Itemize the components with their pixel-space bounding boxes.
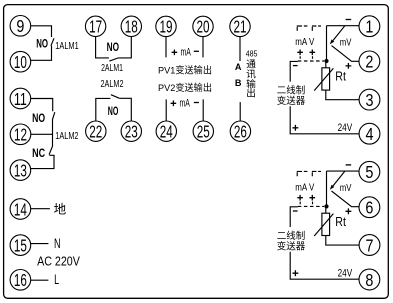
svg-text:16: 16 [14,270,27,290]
relay contact 1ALM2 NC hook to terminal 13 [31,155,54,168]
svg-text:12: 12 [14,125,27,145]
svg-text:4: 4 [366,124,374,144]
RS485 wire to terminal 26 [239,102,241,121]
mV selector arrowhead lower [330,185,335,190]
selector blade to terminal 6 lower [332,191,360,207]
svg-text:二线制: 二线制 [277,84,306,96]
transmitter branch elbow upper [290,61,298,81]
label minus at terminal 1 [346,19,352,21]
dashed drop V lower [312,202,314,207]
ground wire from terminal 14 [31,208,50,210]
svg-text:24: 24 [160,122,173,142]
svg-text:1ALM1: 1ALM1 [55,40,79,52]
dashed drop mA upper [299,56,301,61]
terminal 10 [10,51,31,72]
plus mark mA position upper [297,50,303,56]
terminal 24 [156,121,176,142]
svg-text:地: 地 [54,203,67,217]
svg-text:23: 23 [125,122,138,142]
dashed gate V upper [312,26,321,31]
dashed drop mA lower [299,202,301,207]
svg-text:21: 21 [234,17,247,37]
label + of PV2 output [171,101,177,107]
dashed gate V lower [312,171,321,176]
svg-text:NO: NO [107,40,119,54]
terminal 8 [359,269,380,290]
terminal 25 [193,121,213,142]
svg-text:24V: 24V [338,122,353,134]
dashed selector line lower [298,205,324,207]
svg-text:7: 7 [366,235,374,255]
label minus of transmitter upper [293,65,298,67]
svg-text:13: 13 [14,160,27,180]
svg-text:11: 11 [14,89,27,109]
label + of PV1 output [172,50,178,56]
plus mark mA position lower [297,195,303,201]
wire N from terminal 15 [31,243,49,245]
relay contact 1ALM2 blade [49,112,55,154]
transmitter wire to terminal 4 [290,106,359,134]
terminal 7 [359,235,380,256]
junction node lower [324,204,328,208]
resistor Rt lower wire to terminal 7 [326,236,359,246]
svg-text:mA V: mA V [295,37,314,48]
svg-text:19: 19 [160,17,173,37]
terminal 2 [359,51,380,72]
svg-text:1ALM2: 1ALM2 [55,130,78,142]
svg-text:22: 22 [89,122,102,142]
svg-text:mV: mV [340,183,352,194]
RS485 wire from terminal 21 [239,37,241,61]
svg-text:15: 15 [14,235,27,255]
svg-text:Rt: Rt [335,70,346,84]
label plus at terminal 6 [346,208,352,214]
relay contact 2ALM2 blade [111,95,119,99]
svg-text:L: L [54,271,59,287]
mV selector blade upper [333,26,345,41]
svg-text:18: 18 [125,17,138,37]
terminal 16 [10,270,31,291]
label plus at terminal 2 [346,63,352,69]
label minus at terminal 5 [346,164,352,166]
resistor Rt upper lead [325,61,327,68]
svg-text:PV2变送输出: PV2变送输出 [158,82,212,94]
label plus of 24V upper [293,125,299,131]
terminal 9 [10,15,31,36]
relay contact 1ALM1 wire from terminal 9 [31,26,52,37]
label minus of PV1 output [194,50,199,52]
junction node upper [324,59,328,63]
terminal 23 [121,121,141,142]
svg-text:3: 3 [366,90,374,110]
svg-text:8: 8 [365,270,373,290]
svg-text:1: 1 [365,17,373,37]
svg-text:NO: NO [32,111,45,125]
terminal 26 [230,121,250,142]
terminal 4 [359,123,380,144]
input bus vertical wire lower [326,171,328,206]
terminal 19 [156,16,176,37]
svg-text:mA: mA [181,46,192,58]
svg-text:14: 14 [14,199,27,219]
relay contact 2ALM1 wire from terminal 17 [96,37,109,58]
terminal 22 [86,121,106,142]
wire to terminal 1 [327,25,360,27]
resistor Rt upper body [322,68,330,90]
resistor Rt lower body [322,213,330,235]
dashed selector line upper [298,60,324,62]
terminal 11 [10,88,31,109]
svg-text:25: 25 [197,122,210,142]
terminal 6 [359,197,380,218]
plus mark V position lower [310,195,316,201]
terminal 3 [359,89,380,110]
svg-text:9: 9 [16,16,24,36]
svg-text:24V: 24V [338,268,353,280]
svg-text:二线制: 二线制 [277,230,306,242]
resistor Rt lower lead [325,206,327,213]
label minus of PV2 output [194,102,199,104]
svg-text:2ALM2: 2ALM2 [101,79,124,90]
svg-text:变送器: 变送器 [277,241,306,253]
resistor Rt lower diagonal [314,214,333,236]
dashed drop V upper [312,56,314,61]
dashed gate mA upper [297,26,308,31]
terminal 12 [10,124,31,145]
dashed gate mA lower [297,171,308,176]
terminal 1 [359,16,380,37]
mV selector blade lower [333,171,345,186]
PV2 output wire to terminal 24 [165,99,167,121]
terminal 13 [10,160,31,181]
relay contact 1ALM1 blade [51,38,54,46]
svg-text:AC 220V: AC 220V [37,254,80,269]
relay contact 1ALM1 wire to terminal 10 [31,46,52,61]
svg-text:NC: NC [32,146,45,160]
relay contact 1ALM2 wire from terminal 11 [31,99,53,112]
wire to terminal 5 [327,170,360,172]
svg-text:17: 17 [89,17,102,37]
svg-text:mV: mV [340,37,352,48]
terminal 17 [85,16,105,37]
relay contact 2ALM1 blade [109,58,118,61]
svg-text:出: 出 [246,87,256,100]
PV1 output wire from terminal 19 [165,37,167,58]
relay contact 2ALM2 wire from terminal 23 [119,98,131,121]
svg-text:5: 5 [365,162,373,182]
mV selector arrowhead upper [330,39,335,44]
svg-text:A: A [235,62,242,73]
label plus of 24V lower [293,270,299,276]
svg-text:2ALM1: 2ALM1 [101,63,123,74]
svg-text:NO: NO [108,104,119,118]
label minus of transmitter lower [293,210,298,212]
terminal 18 [121,16,141,37]
svg-text:10: 10 [14,52,27,72]
transmitter branch elbow lower [290,207,298,227]
resistor Rt upper diagonal [314,68,333,90]
terminal 5 [359,161,380,182]
resistor Rt upper wire to terminal 3 [326,90,359,100]
relay contact 2ALM1 wire from terminal 18 [118,37,131,58]
plus mark V position upper [310,50,316,56]
PV1 output wire from terminal 20 [202,37,204,58]
terminal 21 [230,16,250,37]
svg-text:26: 26 [234,122,247,142]
svg-text:N: N [54,235,61,251]
relay contact 2ALM2 wire from terminal 22 [96,98,111,121]
relay contact 1ALM2 wire from terminal 12 [31,133,53,135]
PV2 output wire to terminal 25 [202,99,204,121]
terminal 14 [10,199,31,220]
svg-text:B: B [235,78,242,89]
svg-text:Rt: Rt [335,215,346,229]
svg-text:PV1变送输出: PV1变送输出 [158,64,212,76]
svg-text:变送器: 变送器 [277,95,306,107]
wire L from terminal 16 [31,279,49,281]
terminal 20 [193,16,213,37]
svg-text:NO: NO [36,37,48,51]
terminal 15 [10,235,31,256]
svg-text:mA: mA [180,98,191,110]
svg-text:20: 20 [197,17,210,37]
svg-text:2: 2 [365,52,373,72]
selector blade to terminal 2 upper [332,46,360,62]
svg-text:讯: 讯 [246,68,256,80]
svg-text:mA V: mA V [295,182,314,193]
input bus vertical wire [326,26,328,61]
svg-text:6: 6 [365,198,373,218]
svg-text:485: 485 [246,49,258,59]
transmitter wire to terminal 8 [290,252,359,280]
